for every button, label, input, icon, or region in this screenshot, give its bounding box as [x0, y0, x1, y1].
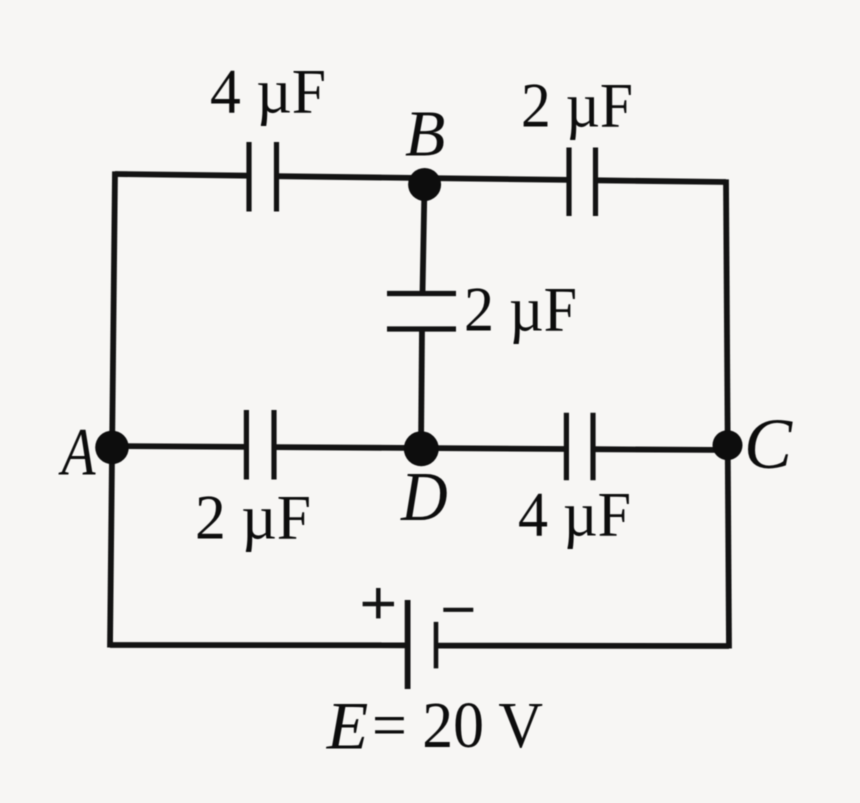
svg-text:2 µF: 2 µF	[464, 274, 577, 345]
wire bottom left to battery	[110, 642, 408, 648]
wire A to C4	[112, 443, 246, 450]
svg-text:E: E	[326, 687, 369, 763]
capacitor C2 2uF top-right plates	[566, 148, 571, 217]
wire C2 to top-right corner	[596, 180, 727, 182]
wire battery to bottom right	[436, 643, 729, 649]
wire left side A branch	[110, 171, 115, 647]
capacitor C1 4uF top-left plates	[246, 142, 251, 212]
wire C4 to node D to C5	[274, 447, 566, 449]
svg-text:B: B	[405, 97, 445, 170]
wire C3 bottom plate to D	[421, 329, 422, 449]
svg-text:2 µF: 2 µF	[521, 70, 633, 141]
svg-text:4 µF: 4 µF	[210, 56, 326, 127]
svg-text:C: C	[744, 404, 793, 484]
node B	[408, 168, 441, 201]
capacitor C5 4uF middle-right plates	[564, 413, 569, 481]
battery plus sign	[363, 588, 394, 618]
svg-text:4 µF: 4 µF	[518, 479, 631, 550]
svg-text:A: A	[58, 413, 96, 489]
battery minus sign	[443, 608, 473, 612]
battery E long plate	[405, 600, 411, 689]
battery E short plate	[434, 622, 439, 669]
capacitor C4 2uF middle-left plates	[244, 410, 249, 480]
wire B to C3 top plate	[423, 185, 425, 294]
node D	[404, 431, 439, 466]
svg-text:= 20 V: = 20 V	[372, 689, 543, 762]
wire C5 to node C	[593, 446, 728, 453]
capacitor C3 2uF middle vertical plates	[387, 291, 456, 296]
node A	[95, 431, 129, 465]
node C	[713, 430, 743, 460]
svg-text:2 µF: 2 µF	[195, 482, 311, 553]
wire right side C branch	[726, 179, 729, 648]
wire C1 to node B to C2	[277, 176, 570, 180]
wire top-left to C1	[115, 174, 249, 176]
svg-text:D: D	[400, 459, 448, 536]
